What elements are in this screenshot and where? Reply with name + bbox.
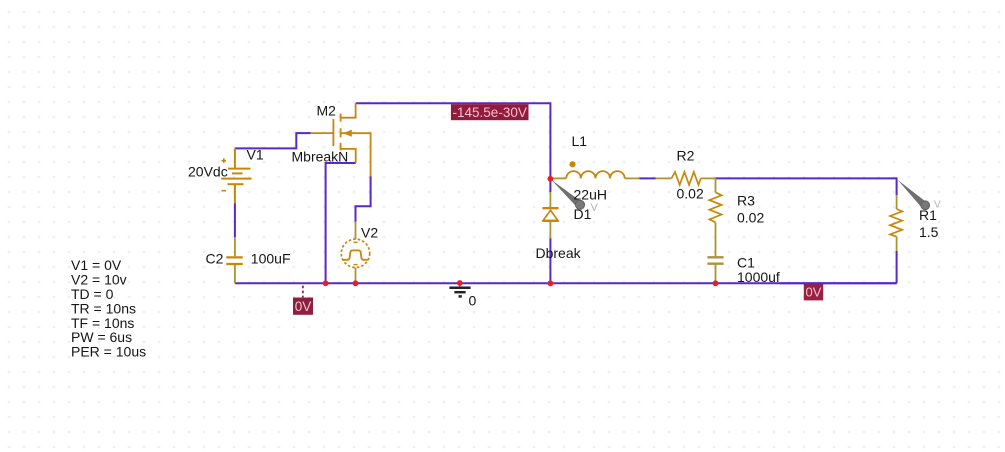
svg-text:R3: R3 xyxy=(737,192,755,208)
bias label -145.5e-30V xyxy=(451,104,529,120)
svg-text:0V: 0V xyxy=(295,299,312,314)
inductor pin1 dot xyxy=(569,161,575,167)
wire battery minus to C2 xyxy=(234,203,236,237)
svg-text:0.02: 0.02 xyxy=(737,210,764,226)
svg-text:0V: 0V xyxy=(806,284,822,299)
resistor R1 xyxy=(890,195,902,251)
parameter text block xyxy=(71,257,146,359)
node dot diode/L1 xyxy=(548,176,554,182)
node dot diode/rail xyxy=(548,280,554,286)
wire drain top rail down to diode node xyxy=(356,103,551,192)
diode D1 xyxy=(542,192,558,239)
resistor R3 xyxy=(709,178,721,256)
wire L1 to R2 xyxy=(640,177,656,179)
svg-text:V1: V1 xyxy=(247,146,264,162)
svg-text:22uH: 22uH xyxy=(574,186,607,202)
wire bottom ground rail xyxy=(235,282,897,284)
svg-text:MbreakN: MbreakN xyxy=(292,148,349,164)
svg-text:1.5: 1.5 xyxy=(919,224,939,240)
svg-text:C1: C1 xyxy=(737,254,755,270)
svg-text:0.02: 0.02 xyxy=(677,186,704,202)
wire R2 to R1 top xyxy=(715,178,896,195)
bias label 0V left xyxy=(293,298,313,315)
node dot C1/rail xyxy=(713,280,719,286)
voltage probe at diode node xyxy=(552,180,599,214)
svg-text:V: V xyxy=(934,200,941,211)
svg-text:V2: V2 xyxy=(361,224,378,240)
wire diode anode to rail xyxy=(549,238,551,283)
capacitor C1 xyxy=(707,257,723,283)
voltage probe at R1 node xyxy=(898,180,941,211)
svg-text:20Vdc: 20Vdc xyxy=(188,163,228,179)
svg-text:V: V xyxy=(591,202,599,214)
svg-text:C2: C2 xyxy=(206,251,224,267)
mosfet body arrow xyxy=(343,130,352,137)
wire battery top to gate xyxy=(235,133,311,148)
rail over right 0V box xyxy=(780,282,897,284)
svg-text:0: 0 xyxy=(469,293,477,309)
svg-text:-145.5e-30V: -145.5e-30V xyxy=(453,105,527,120)
svg-text:M2: M2 xyxy=(317,103,337,119)
wire source down to ground rail xyxy=(326,163,356,283)
bias label 0V left dashed leader xyxy=(302,286,304,298)
bias label 0V right xyxy=(804,283,823,301)
battery V1 xyxy=(221,148,251,203)
wire body to V2 plus xyxy=(356,176,371,222)
svg-text:L1: L1 xyxy=(572,133,588,149)
mosfet M2 xyxy=(311,103,371,176)
svg-text:Dbreak: Dbreak xyxy=(536,245,582,261)
node dot ground/rail xyxy=(457,280,463,286)
svg-text:100uF: 100uF xyxy=(251,251,291,267)
pulse source V2 xyxy=(341,222,369,284)
svg-text:1000uf: 1000uf xyxy=(737,269,780,285)
wire R1 bottom to rail xyxy=(896,251,898,283)
node dot source/rail xyxy=(323,280,329,286)
svg-text:PER = 10us: PER = 10us xyxy=(71,344,146,360)
node dot V2/rail xyxy=(353,280,359,286)
svg-text:R2: R2 xyxy=(677,148,695,164)
capacitor C2 xyxy=(226,237,242,283)
inductor L1 xyxy=(551,171,640,178)
ground 0 xyxy=(449,283,470,296)
resistor R2 xyxy=(656,172,716,185)
